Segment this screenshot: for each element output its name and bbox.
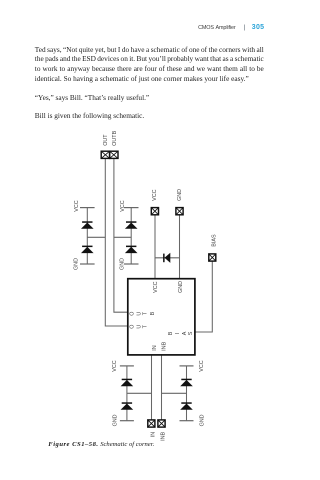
ESD stack lower-right: GND rail — [180, 420, 194, 422]
ESD stack upper-left: VCC rail — [80, 207, 95, 209]
ESD stack upper-left: stack wire — [86, 208, 88, 264]
diode D2 (upper-left to GND) — [81, 246, 94, 254]
diode D9 (lower-right to GND) — [180, 402, 193, 410]
svg-text:VCC: VCC — [199, 360, 205, 371]
svg-text:B: B — [150, 311, 156, 315]
svg-text:O: O — [130, 311, 136, 315]
wire VCC net vertical — [154, 215, 156, 279]
wire junction upper-right to OUTB — [114, 236, 131, 238]
pad OUT — [101, 151, 109, 158]
svg-text:I: I — [175, 333, 181, 335]
ESD stack upper-left: GND rail — [80, 263, 95, 265]
diode D3 (upper-right to VCC) — [125, 221, 138, 229]
diode D5 (clamp, pointing left) — [163, 253, 170, 263]
pad VCC — [151, 208, 158, 215]
pad OUTB — [110, 151, 118, 158]
ESD stack lower-left: VCC rail — [120, 365, 134, 367]
svg-text:OUT: OUT — [103, 134, 109, 146]
svg-text:GND: GND — [177, 189, 183, 201]
svg-text:GND: GND — [74, 258, 80, 270]
wire INB net vertical — [161, 355, 163, 420]
ESD stack lower-right: VCC rail — [180, 365, 194, 367]
wire IN net vertical — [151, 355, 153, 420]
ESD stack upper-right: VCC rail — [124, 207, 139, 209]
wire junction lower-left to IN — [127, 392, 152, 394]
pin label BIAS (box, per-letter) — [168, 331, 194, 335]
wire VCC-GND clamp — [155, 257, 180, 259]
op-amp corner block U1 — [128, 279, 195, 355]
svg-text:T: T — [142, 311, 148, 315]
svg-text:T: T — [142, 324, 148, 328]
svg-text:IN: IN — [150, 432, 156, 437]
svg-text:B: B — [168, 331, 174, 335]
pad GND — [176, 208, 183, 215]
svg-text:GND: GND — [200, 414, 206, 426]
wire OUTB net vertical — [114, 158, 128, 312]
diode D8 (lower-right to VCC) — [180, 379, 193, 387]
svg-text:VCC: VCC — [112, 360, 118, 371]
wire BIAS net — [195, 261, 212, 332]
svg-text:INB: INB — [161, 432, 167, 441]
pin label OUT (box, per-letter) — [130, 324, 149, 328]
wire junction upper-left to OUT — [87, 236, 105, 238]
wire OUT net vertical — [105, 158, 128, 326]
pad BIAS — [209, 254, 216, 261]
svg-text:GND: GND — [120, 258, 126, 270]
svg-text:GND: GND — [178, 281, 184, 293]
wire junction lower-right to INB — [162, 392, 187, 394]
svg-text:A: A — [182, 331, 188, 335]
diode D7 (lower-left to GND) — [121, 402, 134, 410]
diode D6 (lower-left to VCC) — [121, 379, 134, 387]
pad IN — [148, 420, 155, 427]
diode D4 (upper-right to GND) — [125, 246, 138, 254]
svg-text:IN: IN — [152, 345, 158, 350]
wire GND net vertical — [179, 215, 181, 279]
svg-text:S: S — [188, 331, 194, 335]
ESD stack lower-right: stack wire — [186, 366, 188, 421]
svg-text:VCC: VCC — [152, 189, 158, 200]
svg-text:INB: INB — [162, 341, 168, 350]
ESD stack upper-right: GND rail — [124, 263, 139, 265]
pin label OUTB (box, per-letter) — [130, 311, 156, 315]
ESD stack lower-left: GND rail — [120, 420, 134, 422]
diode D1 (upper-left to VCC) — [81, 221, 94, 229]
ESD stack lower-left: stack wire — [126, 366, 128, 421]
svg-text:O: O — [130, 325, 136, 329]
ESD stack upper-right: stack wire — [130, 208, 132, 264]
svg-text:VCC: VCC — [74, 200, 80, 211]
svg-text:VCC: VCC — [153, 281, 159, 292]
svg-text:GND: GND — [113, 414, 119, 426]
pad INB — [158, 420, 165, 427]
svg-text:VCC: VCC — [120, 200, 126, 211]
svg-text:BIAS: BIAS — [211, 234, 217, 247]
svg-text:OUTB: OUTB — [112, 130, 118, 145]
